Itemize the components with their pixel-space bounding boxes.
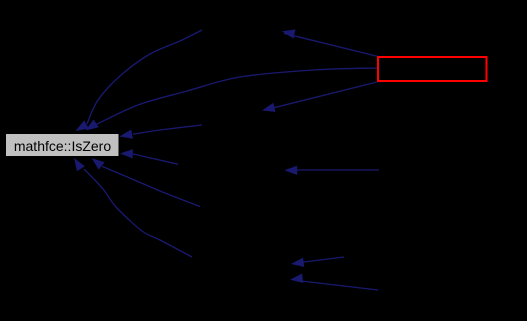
edge: bottom caller node to mathfce::IsZero (74, 158, 192, 257)
edge: top caller node to mathfce::IsZero (76, 30, 203, 131)
node: current function (red outlined box, label invisible on black) (378, 57, 487, 81)
edge: current function (red node) to middle caller node (262, 82, 377, 112)
edge: right caller node to bottom caller node (upper) (291, 257, 344, 267)
node mathfce::IsZero (grey filled box with label) (6, 134, 120, 157)
svg-text:mathfce::IsZero: mathfce::IsZero (14, 138, 111, 154)
edge: current function (red node) to mathfce::IsZero (86, 68, 379, 131)
edge: middle caller node to mathfce::IsZero (120, 125, 203, 139)
edge: lower caller node to mathfce::IsZero (92, 158, 200, 207)
edge: lower-middle caller node to mathfce::IsZero (120, 149, 178, 164)
edge: right caller node to bottom caller node (lower) (290, 274, 378, 291)
edge: current function (red node) to top caller node (282, 29, 378, 56)
edge: right caller node to lower-middle caller node (284, 166, 379, 175)
